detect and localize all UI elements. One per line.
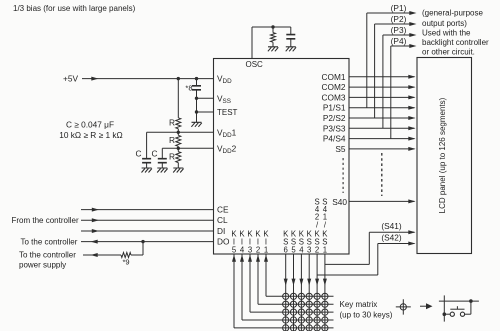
key switch row2 col3 <box>298 301 304 307</box>
svg-text:C ≥ 0.047 μF: C ≥ 0.047 μF <box>66 120 114 130</box>
svg-text:P3/S3: P3/S3 <box>323 123 346 133</box>
key switch row3 col4 <box>306 309 312 315</box>
svg-text:or other circuit.: or other circuit. <box>422 47 475 56</box>
legend switch node bottom <box>443 312 447 316</box>
legend switch column wire <box>443 295 445 321</box>
wire P4 stub <box>391 45 415 47</box>
svg-text:S40: S40 <box>332 197 347 207</box>
key switch row1 col1 <box>283 293 289 299</box>
legend switch lead <box>444 313 450 315</box>
wire COM2 to LCD <box>349 86 415 88</box>
wire key row 5 <box>234 327 334 329</box>
legend switch drop wire <box>470 301 472 314</box>
ground (Rosc) <box>268 47 278 52</box>
wire +5V to VDD <box>82 78 214 80</box>
svg-text:output ports): output ports) <box>422 19 467 28</box>
svg-text:P2/S2: P2/S2 <box>323 113 346 123</box>
svg-text:C: C <box>136 149 142 159</box>
node VSS <box>195 97 198 100</box>
svg-text:P1/S1: P1/S1 <box>323 103 346 113</box>
wire COM3 to LCD <box>349 96 415 98</box>
key switch row2 col5 <box>314 301 320 307</box>
svg-text:(P4): (P4) <box>391 36 407 46</box>
key switch row5 col3 <box>298 325 304 331</box>
key switch row2 col1 <box>283 301 289 307</box>
IC U1 (LCD driver) body <box>214 59 350 255</box>
wire P3 stub <box>383 34 415 36</box>
wire P4 branch vertical <box>390 46 392 139</box>
svg-text:LCD panel (up to 126 segments): LCD panel (up to 126 segments) <box>438 97 447 213</box>
key switch row3 col6 <box>322 309 328 315</box>
svg-text:Key matrix: Key matrix <box>340 300 378 309</box>
key switch row4 col4 <box>306 317 312 323</box>
svg-text:5: 5 <box>291 246 296 255</box>
wire KS5 column <box>293 254 295 331</box>
ground (chain) <box>173 168 183 173</box>
svg-text:6: 6 <box>284 246 288 255</box>
svg-text:COM2: COM2 <box>322 82 346 92</box>
wire COM1 to LCD <box>349 76 415 78</box>
svg-text:DI: DI <box>217 226 225 236</box>
wire KI3 input <box>249 254 251 312</box>
wire VSS <box>197 97 214 99</box>
legend switch row wire <box>439 300 479 302</box>
wire key row 1 <box>266 295 334 297</box>
key switch row4 col1 <box>283 317 289 323</box>
key switch row2 col4 <box>306 301 312 307</box>
node chain top <box>177 77 180 80</box>
wire P2/S2 to LCD <box>349 117 415 119</box>
wire KS4 column <box>300 254 302 331</box>
wire S42 branch <box>317 274 378 276</box>
node VDD1 <box>177 131 180 134</box>
capacitor C1 on VDD1 <box>147 131 179 133</box>
svg-text:COM1: COM1 <box>322 72 346 82</box>
key switch row4 col5 <box>314 317 320 323</box>
resistor *9 <box>121 253 131 258</box>
legend switch contact left <box>450 312 454 316</box>
svg-text:5: 5 <box>232 246 237 255</box>
key switch row3 col2 <box>290 309 296 315</box>
ellipsis dashed line (S6..S39 wires) <box>381 153 383 196</box>
ground (Cosc) <box>286 47 296 52</box>
wire P1 branch vertical <box>366 13 368 108</box>
wire OSC pin up <box>251 27 253 59</box>
svg-text:(S42): (S42) <box>381 232 402 242</box>
key switch row3 col3 <box>298 309 304 315</box>
svg-text:From the controller: From the controller <box>12 216 79 225</box>
legend arrow <box>420 305 427 307</box>
svg-text:3: 3 <box>248 246 252 255</box>
svg-text:Used with the: Used with the <box>422 28 471 37</box>
svg-text:2: 2 <box>315 246 319 255</box>
key switch row5 col1 <box>283 325 289 331</box>
wire DO <box>81 241 214 243</box>
wire KS1 column <box>324 254 326 331</box>
svg-text:2: 2 <box>256 246 260 255</box>
svg-text:R: R <box>169 118 175 128</box>
legend key symbol <box>396 299 411 314</box>
wire S41 branch <box>325 263 369 265</box>
node DO junction <box>141 240 144 243</box>
svg-text:(P2): (P2) <box>391 14 407 24</box>
resistor R middle <box>177 132 179 135</box>
key switch row4 col2 <box>290 317 296 323</box>
svg-text:(P3): (P3) <box>391 25 407 35</box>
ground (C2) <box>157 168 167 173</box>
key switch row4 col3 <box>298 317 304 323</box>
svg-text:P4/S4: P4/S4 <box>323 134 346 144</box>
svg-text:S5: S5 <box>335 144 346 154</box>
node OSC junction <box>271 25 274 28</box>
wire P2 stub <box>375 23 415 25</box>
svg-text:1/3 bias (for use with large p: 1/3 bias (for use with large panels) <box>13 4 136 13</box>
key switch row2 col6 <box>322 301 328 307</box>
svg-text:C: C <box>152 149 158 159</box>
svg-text:DO: DO <box>217 237 230 247</box>
wire DI <box>81 230 214 232</box>
ellipsis dashed line inside IC (S6..S39) <box>342 158 344 193</box>
wire VDD bypass vertical <box>196 79 198 86</box>
wire KI1 input <box>265 254 267 296</box>
svg-text:To the controller: To the controller <box>19 250 76 259</box>
svg-text:R: R <box>169 152 175 162</box>
wire P2 branch vertical <box>374 24 376 118</box>
key switch row5 col5 <box>314 325 320 331</box>
svg-text:4: 4 <box>299 246 304 255</box>
wire key row 3 <box>250 311 334 313</box>
svg-text:To the controller: To the controller <box>21 237 78 246</box>
svg-text:4: 4 <box>240 246 245 255</box>
key switch row3 col5 <box>314 309 320 315</box>
wire P3/S3 to LCD <box>349 127 415 129</box>
wire chain vertical top <box>177 79 179 118</box>
wire CL <box>81 219 214 221</box>
key switch row1 col4 <box>306 293 312 299</box>
key switch row1 col3 <box>298 293 304 299</box>
svg-text:TEST: TEST <box>217 108 238 117</box>
wire KI4 input <box>241 254 243 320</box>
wire VDD2 <box>178 147 213 149</box>
legend switch node top <box>469 299 473 303</box>
legend switch contact right <box>460 312 464 316</box>
capacitor C2 on VDD2 <box>162 147 178 149</box>
svg-text:(up to 30 keys): (up to 30 keys) <box>340 310 393 319</box>
svg-text:1: 1 <box>264 246 268 255</box>
svg-text:1: 1 <box>323 246 327 255</box>
ground (C1) <box>142 168 152 173</box>
wire key row 2 <box>258 303 334 305</box>
svg-text:CE: CE <box>217 205 229 215</box>
wire KS6 column <box>285 254 287 331</box>
wire KS3 column <box>308 254 310 331</box>
wire S5 to LCD <box>349 148 415 150</box>
svg-text:10 kΩ ≥ R ≥ 1 kΩ: 10 kΩ ≥ R ≥ 1 kΩ <box>59 130 122 140</box>
svg-text:+5V: +5V <box>63 73 78 83</box>
key switch row3 col1 <box>283 309 289 315</box>
capacitor Cosc <box>290 27 292 35</box>
wire CE <box>81 209 214 211</box>
resistor Rosc <box>272 27 274 33</box>
wire OSC top horizontal <box>252 26 291 28</box>
node bypass top <box>195 77 198 80</box>
LCD panel box <box>417 58 472 254</box>
svg-text:COM3: COM3 <box>322 92 346 102</box>
resistor R top <box>176 118 181 129</box>
svg-text:(P1): (P1) <box>391 3 407 13</box>
key switch row4 col6 <box>322 317 328 323</box>
node TEST <box>195 110 198 113</box>
svg-text:(S41): (S41) <box>381 221 402 231</box>
wire TEST <box>197 111 214 113</box>
wire DO pull-up branch <box>142 242 144 255</box>
wire S40 to LCD <box>349 200 415 202</box>
resistor R bottom <box>177 148 179 151</box>
svg-text:*9: *9 <box>122 258 129 267</box>
wire P3 branch vertical <box>382 35 384 128</box>
svg-text:3: 3 <box>307 246 311 255</box>
key switch row5 col4 <box>306 325 312 331</box>
capacitor *8 <box>192 86 201 90</box>
svg-text:OSC: OSC <box>246 60 264 69</box>
wire key row 4 <box>242 319 334 321</box>
key switch row1 col2 <box>290 293 296 299</box>
svg-text:R: R <box>169 135 175 145</box>
svg-text:(general-purpose: (general-purpose <box>422 9 483 18</box>
wire KS2 column <box>316 254 318 331</box>
legend switch actuator <box>450 308 464 310</box>
wire P4/S4 to LCD <box>349 138 415 140</box>
wire VDD1 <box>178 131 213 133</box>
svg-text:CL: CL <box>217 215 228 225</box>
ground (bypass) <box>191 122 201 127</box>
node VDD2 <box>177 147 180 150</box>
wire P1/S1 to LCD <box>349 107 415 109</box>
wire P1 stub <box>367 12 415 14</box>
key switch row5 col6 <box>322 325 328 331</box>
wire KI2 input <box>257 254 259 304</box>
key switch row5 col2 <box>290 325 296 331</box>
key switch row1 col5 <box>314 293 320 299</box>
key switch row1 col6 <box>322 293 328 299</box>
wire KI5 input <box>233 254 235 328</box>
svg-text:*8: *8 <box>185 83 192 92</box>
key switch row2 col2 <box>290 301 296 307</box>
svg-text:power supply: power supply <box>19 261 66 270</box>
svg-text:backlight controller: backlight controller <box>422 38 489 47</box>
